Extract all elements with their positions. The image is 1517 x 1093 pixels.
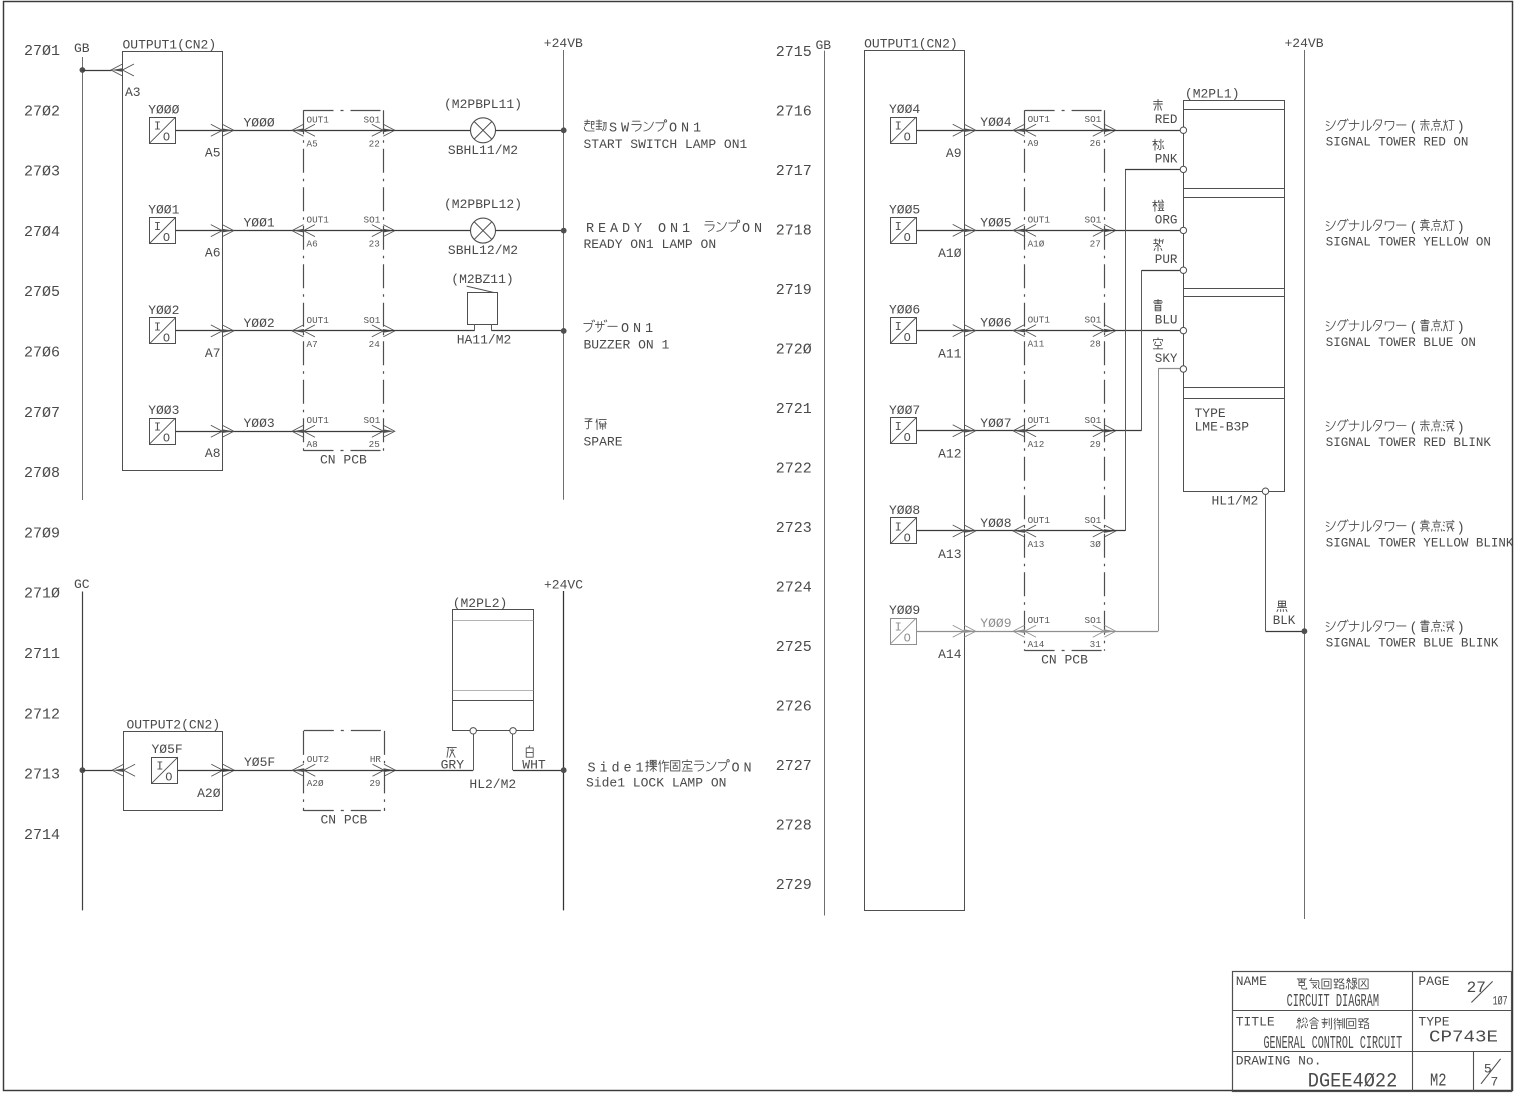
svg-text:28: 28 (1090, 339, 1101, 350)
svg-text:YØØ4: YØØ4 (889, 102, 920, 117)
svg-text:I: I (154, 220, 161, 234)
svg-text:HL2/M2: HL2/M2 (469, 777, 516, 792)
svg-text:A2Ø: A2Ø (197, 786, 221, 801)
svg-text:YØØ5: YØØ5 (889, 202, 920, 217)
svg-text:YØØ4: YØØ4 (980, 115, 1011, 130)
svg-text:OUT1: OUT1 (1028, 214, 1051, 225)
svg-text:YØØ2: YØØ2 (244, 316, 275, 331)
svg-text:GENERAL CONTROL CIRCUIT: GENERAL CONTROL CIRCUIT (1264, 1034, 1403, 1054)
svg-text:YØØ3: YØØ3 (148, 403, 179, 418)
svg-text:A2Ø: A2Ø (307, 778, 324, 789)
svg-text:R: R (586, 222, 594, 237)
svg-text:E: E (598, 222, 606, 237)
svg-text:N: N (754, 222, 762, 237)
svg-text:SIGNAL TOWER RED ON: SIGNAL TOWER RED ON (1326, 136, 1469, 150)
svg-text:2727: 2727 (776, 758, 812, 775)
svg-text:SO1: SO1 (364, 315, 381, 326)
svg-text:SKY: SKY (1155, 352, 1178, 366)
svg-text:I: I (156, 760, 163, 774)
svg-text:SIGNAL TOWER BLUE BLINK: SIGNAL TOWER BLUE BLINK (1326, 637, 1499, 651)
svg-text:d: d (612, 761, 620, 776)
svg-text:YØØ1: YØØ1 (244, 216, 275, 231)
svg-text:TYPE: TYPE (1418, 1015, 1449, 1030)
svg-text:ORG: ORG (1155, 213, 1178, 227)
svg-text:SIGNAL TOWER BLUE ON: SIGNAL TOWER BLUE ON (1326, 336, 1476, 350)
svg-text:BLK: BLK (1273, 614, 1296, 628)
svg-text:A9: A9 (946, 146, 962, 161)
svg-text:2713: 2713 (24, 767, 60, 784)
svg-text:SPARE: SPARE (584, 435, 623, 450)
svg-text:27Ø5: 27Ø5 (24, 284, 60, 301)
svg-text:(: ( (1409, 622, 1417, 637)
svg-text:A5: A5 (307, 138, 318, 149)
svg-text:BUZZER ON 1: BUZZER ON 1 (584, 337, 670, 352)
svg-text:O: O (165, 771, 172, 785)
svg-text:OUT1: OUT1 (307, 215, 330, 226)
svg-text:OUT1: OUT1 (1028, 515, 1051, 526)
svg-text:A5: A5 (205, 145, 221, 160)
svg-text:A14: A14 (938, 647, 962, 662)
svg-text:YØØ8: YØØ8 (889, 503, 920, 518)
svg-text:O: O (658, 222, 666, 237)
svg-text:A: A (610, 222, 619, 237)
svg-text:1Ø7: 1Ø7 (1493, 994, 1508, 1009)
svg-text:+24VB: +24VB (1285, 36, 1324, 51)
svg-text:N: N (681, 122, 689, 137)
svg-text:GRY: GRY (441, 757, 465, 772)
svg-text:2723: 2723 (776, 520, 812, 537)
svg-text:31: 31 (1090, 639, 1102, 650)
svg-text:A12: A12 (938, 447, 961, 462)
svg-text:O: O (904, 231, 911, 245)
svg-text:CN PCB: CN PCB (320, 813, 367, 828)
svg-text:27Ø4: 27Ø4 (24, 224, 60, 241)
svg-text:M2: M2 (1430, 1072, 1447, 1092)
svg-text:27Ø7: 27Ø7 (24, 405, 60, 422)
svg-text:CP743E: CP743E (1429, 1029, 1498, 1048)
svg-text:(M2PBPL11): (M2PBPL11) (444, 97, 522, 112)
svg-text:24: 24 (369, 339, 381, 350)
svg-text:): ) (1457, 522, 1465, 537)
svg-text:N: N (633, 322, 641, 337)
svg-text:27Ø2: 27Ø2 (24, 103, 60, 120)
svg-text:SIGNAL TOWER YELLOW BLINK: SIGNAL TOWER YELLOW BLINK (1326, 536, 1514, 550)
svg-text:2719: 2719 (776, 282, 812, 299)
svg-text:SBHL12/M2: SBHL12/M2 (448, 243, 518, 258)
svg-text:O: O (904, 531, 911, 545)
svg-text:N: N (744, 761, 752, 776)
svg-text:O: O (163, 331, 170, 345)
svg-text:OUTPUT2(CN2): OUTPUT2(CN2) (127, 718, 221, 733)
svg-text:A14: A14 (1028, 639, 1045, 650)
svg-text:I: I (895, 520, 902, 534)
svg-text:): ) (1457, 321, 1465, 336)
svg-text:OUT1: OUT1 (1028, 415, 1051, 426)
svg-text:2721: 2721 (776, 401, 812, 418)
svg-text:27: 27 (1090, 238, 1101, 249)
svg-text:(M2PL1): (M2PL1) (1185, 86, 1240, 101)
svg-text:LME-B3P: LME-B3P (1195, 420, 1250, 435)
svg-text:2724: 2724 (776, 580, 812, 597)
svg-text:OUT1: OUT1 (1028, 615, 1051, 626)
svg-text:PAGE: PAGE (1418, 974, 1449, 989)
svg-text:W: W (621, 122, 630, 137)
svg-text:27Ø8: 27Ø8 (24, 465, 60, 482)
svg-text:I: I (895, 420, 902, 434)
svg-text:O: O (621, 322, 629, 337)
svg-text:27Ø6: 27Ø6 (24, 345, 60, 362)
svg-text:27Ø9: 27Ø9 (24, 525, 60, 542)
svg-text:D: D (622, 222, 630, 237)
svg-text:YØØ2: YØØ2 (148, 303, 179, 318)
svg-text:(M2PBPL12): (M2PBPL12) (444, 197, 522, 212)
svg-text:TITLE: TITLE (1236, 1015, 1275, 1030)
svg-text:CN PCB: CN PCB (320, 453, 367, 468)
svg-text:SO1: SO1 (364, 215, 381, 226)
svg-text:SIGNAL TOWER RED BLINK: SIGNAL TOWER RED BLINK (1326, 436, 1492, 450)
svg-text:O: O (904, 431, 911, 445)
svg-text:I: I (154, 120, 161, 134)
svg-text:YØØ1: YØØ1 (148, 203, 179, 218)
svg-text:YØ5F: YØ5F (152, 742, 183, 757)
svg-text:A8: A8 (307, 439, 318, 450)
svg-text:A12: A12 (1028, 439, 1045, 450)
svg-text:2716: 2716 (776, 104, 812, 121)
svg-text:PUR: PUR (1155, 253, 1178, 267)
svg-text:OUT1: OUT1 (307, 315, 330, 326)
svg-text:CN PCB: CN PCB (1041, 653, 1088, 668)
svg-text:PNK: PNK (1155, 152, 1178, 166)
svg-text:): ) (1457, 622, 1465, 637)
svg-text:OUT1: OUT1 (307, 114, 330, 125)
svg-text:(: ( (1409, 321, 1417, 336)
svg-text:RED: RED (1155, 113, 1178, 127)
svg-text:+24VC: +24VC (544, 578, 583, 593)
svg-text:OUTPUT1(CN2): OUTPUT1(CN2) (864, 37, 958, 52)
svg-text:): ) (1457, 121, 1465, 136)
svg-text:SO1: SO1 (1085, 615, 1102, 626)
svg-text:): ) (1457, 421, 1465, 436)
svg-text:DGEE4Ø22: DGEE4Ø22 (1308, 1071, 1398, 1093)
svg-text:GB: GB (74, 41, 90, 56)
svg-text:2711: 2711 (24, 646, 60, 663)
svg-text:(: ( (1409, 121, 1417, 136)
svg-text:O: O (669, 122, 677, 137)
svg-text:A9: A9 (1028, 138, 1039, 149)
svg-text:O: O (904, 331, 911, 345)
svg-text:23: 23 (369, 239, 380, 250)
svg-text:HA11/M2: HA11/M2 (457, 333, 512, 348)
svg-text:SO1: SO1 (1085, 214, 1102, 225)
svg-text:A7: A7 (307, 339, 318, 350)
svg-text:1: 1 (636, 761, 644, 776)
svg-text:SO1: SO1 (364, 114, 381, 125)
svg-text:271Ø: 271Ø (24, 586, 60, 603)
svg-text:YØØ9: YØØ9 (980, 616, 1011, 631)
svg-text:2726: 2726 (776, 699, 812, 716)
svg-text:SO1: SO1 (364, 415, 381, 426)
svg-text:I: I (895, 220, 902, 234)
svg-text:2728: 2728 (776, 818, 812, 835)
svg-text:SO1: SO1 (1085, 114, 1102, 125)
svg-text:CIRCUIT DIAGRAM: CIRCUIT DIAGRAM (1287, 992, 1379, 1012)
svg-text:WHT: WHT (522, 757, 546, 772)
svg-text:O: O (732, 761, 740, 776)
svg-text:27Ø1: 27Ø1 (24, 43, 60, 60)
svg-text:YØØØ: YØØØ (244, 115, 275, 130)
svg-text:NAME: NAME (1236, 974, 1267, 989)
svg-text:2717: 2717 (776, 163, 812, 180)
svg-text:GB: GB (816, 38, 832, 53)
svg-text:Side1 LOCK LAMP ON: Side1 LOCK LAMP ON (586, 776, 726, 791)
svg-text:HR: HR (370, 754, 382, 765)
svg-text:e: e (624, 761, 632, 776)
svg-text:(: ( (1409, 522, 1417, 537)
svg-text:YØØ6: YØØ6 (889, 303, 920, 318)
svg-text:27Ø3: 27Ø3 (24, 164, 60, 181)
svg-text:O: O (742, 222, 750, 237)
svg-text:O: O (163, 432, 170, 446)
svg-text:I: I (154, 320, 161, 334)
svg-text:O: O (904, 131, 911, 145)
svg-text:22: 22 (369, 138, 380, 149)
svg-text:2712: 2712 (24, 706, 60, 723)
svg-text:2714: 2714 (24, 827, 60, 844)
svg-text:A11: A11 (1028, 339, 1045, 350)
svg-text:BLU: BLU (1155, 314, 1178, 328)
svg-text:O: O (163, 231, 170, 245)
svg-text:A11: A11 (938, 346, 962, 361)
svg-text:A8: A8 (205, 446, 221, 461)
svg-text:2729: 2729 (776, 877, 812, 894)
svg-text:2725: 2725 (776, 639, 812, 656)
svg-text:OUT2: OUT2 (307, 754, 329, 765)
svg-text:(M2BZ11): (M2BZ11) (451, 272, 513, 287)
svg-text:A1Ø: A1Ø (1028, 238, 1045, 249)
svg-text:YØØ8: YØØ8 (980, 516, 1011, 531)
svg-text:YØØ5: YØØ5 (980, 215, 1011, 230)
svg-text:3Ø: 3Ø (1090, 539, 1102, 550)
svg-text:A6: A6 (307, 239, 318, 250)
svg-text:YØØ7: YØØ7 (980, 416, 1011, 431)
svg-text:N: N (670, 222, 678, 237)
svg-text:S: S (609, 122, 617, 137)
svg-text:OUT1: OUT1 (1028, 114, 1051, 125)
svg-text:): ) (1457, 221, 1465, 236)
svg-text:YØØ7: YØØ7 (889, 403, 920, 418)
svg-text:7: 7 (1491, 1075, 1499, 1090)
svg-text:29: 29 (369, 778, 380, 789)
svg-text:1: 1 (693, 122, 701, 137)
svg-text:S: S (588, 761, 596, 776)
svg-text:A13: A13 (1028, 539, 1045, 550)
svg-text:SO1: SO1 (1085, 315, 1102, 326)
svg-text:(M2PL2): (M2PL2) (453, 596, 508, 611)
svg-text:2715: 2715 (776, 44, 812, 61)
svg-text:YØØØ: YØØØ (148, 102, 179, 117)
svg-text:Y: Y (634, 222, 642, 237)
svg-text:26: 26 (1090, 138, 1101, 149)
svg-text:SO1: SO1 (1085, 515, 1102, 526)
svg-text:I: I (154, 421, 161, 435)
svg-text:GC: GC (74, 577, 90, 592)
svg-text:A13: A13 (938, 547, 961, 562)
svg-text:YØØ6: YØØ6 (980, 316, 1011, 331)
svg-text:SIGNAL TOWER YELLOW ON: SIGNAL TOWER YELLOW ON (1326, 236, 1491, 250)
svg-text:25: 25 (369, 439, 380, 450)
svg-text:O: O (904, 632, 911, 646)
svg-text:+24VB: +24VB (544, 36, 583, 51)
svg-text:A3: A3 (125, 85, 141, 100)
svg-text:YØ5F: YØ5F (244, 755, 275, 770)
svg-text:2718: 2718 (776, 223, 812, 240)
svg-text:A1Ø: A1Ø (938, 246, 962, 261)
svg-text:YØØ9: YØØ9 (889, 603, 920, 618)
svg-text:I: I (895, 621, 902, 635)
svg-text:OUT1: OUT1 (1028, 315, 1051, 326)
svg-text:SBHL11/M2: SBHL11/M2 (448, 143, 518, 158)
svg-text:(: ( (1409, 221, 1417, 236)
svg-text:I: I (895, 120, 902, 134)
svg-text:A6: A6 (205, 246, 221, 261)
svg-text:OUTPUT1(CN2): OUTPUT1(CN2) (123, 38, 217, 53)
svg-text:START SWITCH LAMP ON1: START SWITCH LAMP ON1 (584, 137, 748, 152)
svg-text:O: O (163, 131, 170, 145)
svg-text:i: i (600, 761, 608, 776)
svg-text:29: 29 (1090, 439, 1101, 450)
svg-text:HL1/M2: HL1/M2 (1212, 494, 1259, 509)
svg-text:2722: 2722 (776, 461, 812, 478)
svg-text:DRAWING No.: DRAWING No. (1236, 1054, 1322, 1069)
svg-text:OUT1: OUT1 (307, 415, 330, 426)
svg-text:27: 27 (1467, 979, 1486, 997)
svg-text:272Ø: 272Ø (776, 342, 812, 359)
svg-text:1: 1 (645, 322, 653, 337)
svg-text:(: ( (1409, 421, 1417, 436)
svg-text:I: I (895, 320, 902, 334)
svg-text:READY ON1 LAMP ON: READY ON1 LAMP ON (584, 237, 717, 252)
svg-text:YØØ3: YØØ3 (244, 416, 275, 431)
svg-text:A7: A7 (205, 346, 221, 361)
svg-text:SO1: SO1 (1085, 415, 1102, 426)
svg-text:1: 1 (682, 222, 690, 237)
